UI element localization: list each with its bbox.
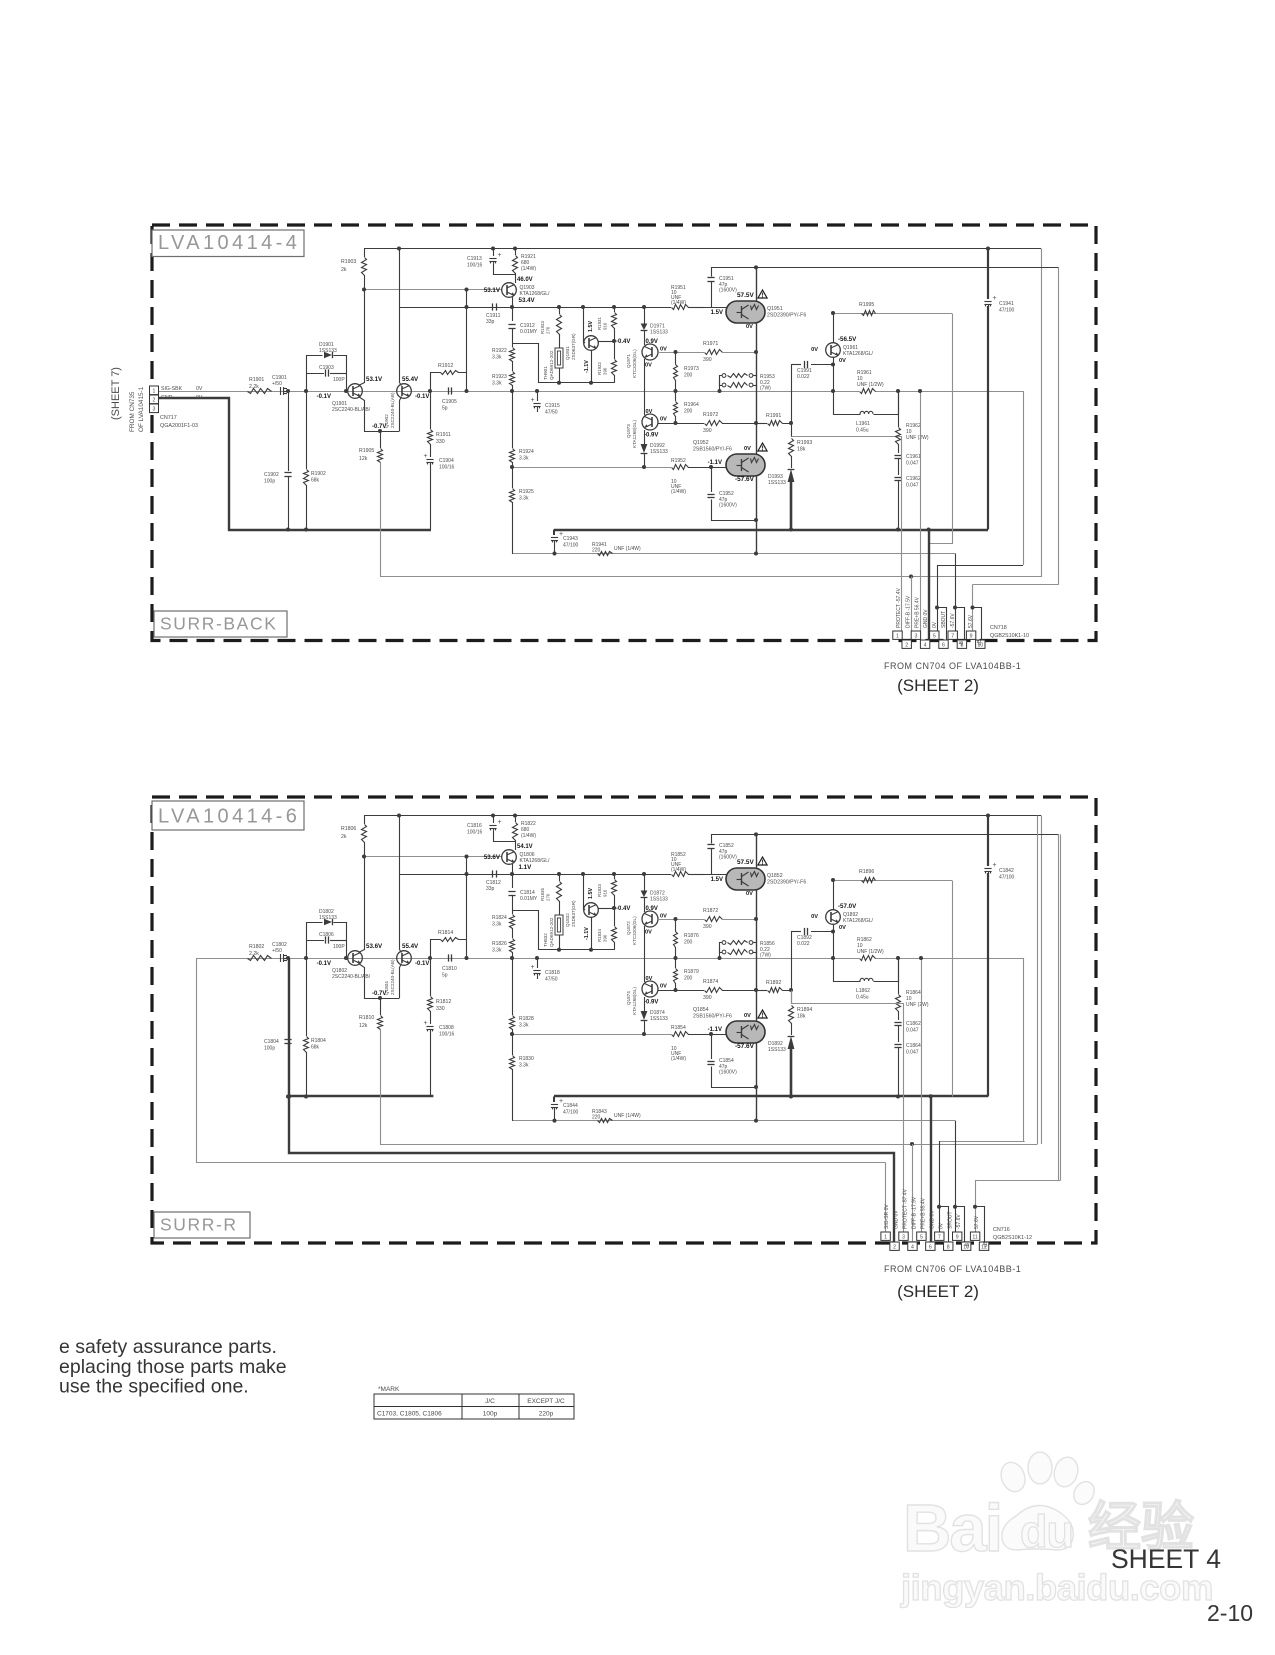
- svg-text:0V: 0V: [660, 984, 667, 990]
- title box LVA10414-6: [152, 801, 304, 830]
- wire Q1901 collector: [359, 290, 365, 386]
- svg-text:Q1952: Q1952: [693, 440, 709, 446]
- svg-text:L1961: L1961: [856, 421, 870, 427]
- svg-text:J/C: J/C: [485, 1398, 495, 1405]
- svg-text:QAD6912-202: QAD6912-202: [549, 917, 554, 947]
- svg-text:+B: +B: [977, 639, 983, 646]
- svg-text:330: 330: [436, 1006, 445, 1012]
- svg-text:KTC3206(GL): KTC3206(GL): [632, 349, 637, 378]
- svg-text:CN717: CN717: [160, 415, 177, 421]
- thermistor TH832: [559, 874, 561, 881]
- wire SBOUT vertical: [1023, 391, 1025, 565]
- svg-text:Q1902: Q1902: [384, 414, 389, 428]
- resistor R1810: [378, 996, 382, 1000]
- svg-text:-1.1V: -1.1V: [708, 460, 722, 466]
- svg-text:5: 5: [920, 1234, 923, 1240]
- svg-text:0.022: 0.022: [797, 374, 810, 380]
- svg-text:C1864: C1864: [906, 1043, 921, 1049]
- warning mark: [758, 1010, 767, 1018]
- wire thermistor bottom rail: [513, 911, 615, 950]
- svg-text:3.3k: 3.3k: [519, 456, 529, 462]
- svg-text:use the specified one.: use the specified one.: [59, 1376, 249, 1398]
- svg-text:R1971: R1971: [703, 341, 718, 347]
- svg-text:3.3k: 3.3k: [492, 948, 502, 954]
- svg-text:-57.6V: -57.6V: [956, 1214, 962, 1229]
- svg-text:+: +: [993, 295, 997, 302]
- capacitor C1842: [986, 814, 990, 818]
- resistor R1922: [512, 329, 514, 347]
- svg-text:3: 3: [902, 1234, 905, 1240]
- wire DIFF-B leg: [381, 1030, 1038, 1145]
- svg-text:0V: 0V: [196, 386, 203, 392]
- connector CN716 wiring pin8 jumper: [940, 1207, 949, 1243]
- svg-text:UNF (1/2W): UNF (1/2W): [857, 949, 884, 955]
- svg-text:R1812: R1812: [436, 999, 451, 1005]
- connector CN716 wiring pin3 PROTECT: [792, 991, 904, 1233]
- svg-text:R1912: R1912: [438, 363, 453, 369]
- svg-text:R1833: R1833: [597, 884, 602, 897]
- svg-text:SHEET 4: SHEET 4: [1111, 1544, 1221, 1574]
- svg-text:C1904: C1904: [439, 458, 454, 464]
- svg-text:220: 220: [592, 548, 601, 554]
- svg-text:KTA1268/GL/: KTA1268/GL/: [843, 351, 874, 357]
- svg-text:2SB1560/PY/-F6: 2SB1560/PY/-F6: [693, 447, 732, 453]
- wire Q1902 emitter: [400, 397, 402, 432]
- connector CN717: [150, 386, 159, 395]
- svg-text:6: 6: [929, 1244, 932, 1250]
- svg-text:1SS133: 1SS133: [319, 348, 337, 354]
- svg-text:11: 11: [972, 1234, 977, 1240]
- svg-text:1.5V: 1.5V: [588, 321, 594, 332]
- svg-text:2-10: 2-10: [1207, 1600, 1253, 1626]
- resistor R1864: [898, 958, 900, 994]
- svg-text:57.6V: 57.6V: [968, 614, 974, 628]
- svg-text:390: 390: [703, 924, 712, 930]
- svg-text:(7W): (7W): [760, 386, 771, 392]
- capacitor C1991: [791, 364, 801, 366]
- capacitor C1864: [898, 1026, 900, 1042]
- svg-text:0V: 0V: [939, 1222, 945, 1229]
- connector CN716 wiring pin5 PRE+B: [921, 959, 923, 1232]
- wire main signal line: [158, 391, 859, 393]
- svg-text:PROTECT -57.4V: PROTECT -57.4V: [896, 587, 902, 628]
- wire DIFF-B right vertical: [1037, 816, 1039, 1145]
- resistor R1973: [674, 350, 678, 354]
- svg-text:UNF (1/2W): UNF (1/2W): [857, 382, 884, 388]
- svg-text:33p: 33p: [486, 319, 495, 325]
- svg-text:1.5V: 1.5V: [711, 310, 723, 316]
- wire +B top rail: [364, 248, 1041, 250]
- svg-text:UNF (2W): UNF (2W): [906, 435, 929, 441]
- svg-text:55.4V: 55.4V: [402, 943, 419, 950]
- svg-text:-0.1V: -0.1V: [415, 961, 429, 967]
- resistor R1901: [248, 389, 272, 394]
- capacitor C1814: [508, 891, 515, 893]
- diode D1901: [307, 356, 323, 392]
- svg-text:270: 270: [546, 893, 551, 901]
- svg-text:SIG-SR 0V: SIG-SR 0V: [884, 1204, 890, 1229]
- svg-text:0.047: 0.047: [906, 483, 919, 489]
- svg-text:2: 2: [905, 642, 908, 648]
- svg-text:390: 390: [603, 367, 608, 375]
- transistor Q1973: [644, 359, 646, 415]
- svg-text:-56.5V: -56.5V: [838, 336, 857, 343]
- wire -B zobel line: [513, 553, 955, 555]
- connector CN716 wiring pin1 SIG-SR: [885, 1163, 887, 1233]
- resistor R1953 emitter 0.22 7W: [722, 374, 726, 378]
- capacitor C1901: [280, 387, 282, 395]
- svg-text:C1816: C1816: [467, 823, 482, 829]
- svg-text:-0.1V: -0.1V: [415, 394, 429, 400]
- capacitor C1903: [306, 373, 324, 375]
- svg-text:200: 200: [684, 409, 693, 415]
- wire CN717 pin1 to input: [159, 391, 247, 393]
- resistor R1993: [789, 439, 794, 457]
- svg-text:7: 7: [938, 1234, 941, 1240]
- warning mark: [758, 857, 767, 865]
- svg-text:47/100: 47/100: [563, 1110, 579, 1116]
- svg-text:3: 3: [153, 407, 156, 413]
- wire GND rail right: [554, 1095, 988, 1097]
- resistor R1933: [557, 315, 562, 335]
- svg-text:1.1V: 1.1V: [519, 864, 533, 871]
- transistor Q1802: [348, 951, 363, 966]
- svg-text:0V: 0V: [746, 891, 753, 897]
- svg-text:54.1V: 54.1V: [517, 844, 533, 850]
- capacitor C1806: [306, 940, 324, 942]
- svg-text:2SB1560/PY/-F6: 2SB1560/PY/-F6: [693, 1014, 732, 1020]
- capacitor C1952: [711, 467, 713, 492]
- svg-text:7: 7: [951, 633, 954, 639]
- svg-text:46.0V: 46.0V: [517, 277, 533, 283]
- svg-text:QGB2S10K1-10: QGB2S10K1-10: [990, 633, 1029, 639]
- svg-text:R1894: R1894: [797, 1007, 812, 1013]
- svg-text:12k: 12k: [359, 456, 368, 462]
- wire right vertical +B: [1058, 834, 1060, 1180]
- transistor Q1892: [826, 910, 841, 925]
- resistor R1924: [512, 391, 514, 448]
- svg-text:0.047: 0.047: [906, 1050, 919, 1056]
- svg-text:GND 0V: GND 0V: [930, 1210, 936, 1229]
- svg-text:0V: 0V: [932, 621, 938, 628]
- svg-text:18k: 18k: [797, 1014, 806, 1020]
- svg-text:910: 910: [603, 889, 608, 897]
- svg-text:-B: -B: [959, 640, 965, 646]
- svg-text:-0.4V: -0.4V: [616, 339, 630, 345]
- svg-text:100/16: 100/16: [439, 465, 455, 471]
- svg-text:C1804: C1804: [264, 1039, 279, 1045]
- wire protect line: [791, 436, 902, 438]
- resistor R1894: [789, 1006, 794, 1024]
- svg-text:+/50: +/50: [272, 381, 282, 387]
- svg-text:R1923: R1923: [492, 374, 507, 380]
- connector CN716 wiring pin11 +B: [976, 1181, 1061, 1233]
- wire GND rail left segment: [289, 1095, 433, 1097]
- svg-text:33p: 33p: [486, 886, 495, 892]
- svg-text:12k: 12k: [359, 1023, 368, 1029]
- resistor R1812: [428, 956, 432, 960]
- wire top-right vertical to DIFF-B: [1041, 816, 1043, 1145]
- svg-text:C1902: C1902: [264, 472, 279, 478]
- wire GND rail right: [554, 529, 988, 531]
- svg-text:(SHEET 2): (SHEET 2): [897, 676, 979, 695]
- svg-text:2k: 2k: [341, 834, 347, 840]
- svg-text:+: +: [993, 862, 997, 869]
- svg-text:Q1971: Q1971: [626, 354, 631, 368]
- svg-text:CN716: CN716: [993, 1227, 1010, 1233]
- connector CN718 wiring pin1 PROTECT: [901, 436, 903, 631]
- capacitor C1892: [791, 931, 801, 933]
- svg-text:2SD2390/PY/-F6: 2SD2390/PY/-F6: [767, 880, 806, 886]
- resistor R1952: [672, 465, 689, 470]
- svg-text:0.022: 0.022: [797, 941, 810, 947]
- svg-text:LVA10414-6: LVA10414-6: [158, 806, 300, 828]
- svg-text:100p: 100p: [483, 1411, 498, 1418]
- svg-text:0V: 0V: [811, 914, 818, 920]
- svg-text:0V: 0V: [645, 363, 652, 369]
- svg-text:Q1973: Q1973: [626, 424, 631, 438]
- node -0.4V: [612, 906, 616, 910]
- resistor R1892: [754, 988, 758, 992]
- diode D1971: [642, 305, 646, 309]
- svg-text:0V: 0V: [744, 446, 751, 452]
- connector CN716 wiring pin9 -B: [955, 1121, 957, 1232]
- svg-text:200: 200: [684, 940, 693, 946]
- wire Q1903 base vertical: [466, 290, 468, 373]
- resistor R1921: [513, 247, 517, 251]
- block border LVA10414-6: [152, 797, 1096, 1243]
- svg-text:3.3k: 3.3k: [519, 1023, 529, 1029]
- svg-text:(1600V): (1600V): [719, 503, 737, 509]
- svg-text:R1911: R1911: [436, 432, 451, 438]
- resistor R1833: [614, 874, 616, 879]
- svg-text:53.4V: 53.4V: [519, 297, 536, 304]
- svg-text:3.3k: 3.3k: [492, 355, 502, 361]
- transistor Q1874: [644, 926, 646, 982]
- connector CN718 wiring pin9 +B: [972, 585, 974, 632]
- watermark paw: [997, 1452, 1098, 1550]
- resistor R1836: [557, 882, 562, 902]
- svg-text:0V: 0V: [646, 976, 653, 982]
- svg-text:TH901: TH901: [543, 366, 548, 380]
- svg-text:R1854: R1854: [671, 1025, 686, 1031]
- svg-text:-0.1V: -0.1V: [317, 394, 331, 400]
- wire thermistor bottom rail: [513, 344, 615, 383]
- svg-text:R1933: R1933: [540, 321, 545, 334]
- diode D1892: [788, 1036, 795, 1049]
- svg-text:0.01MY: 0.01MY: [520, 896, 538, 902]
- svg-text:-B: -B: [965, 1242, 971, 1248]
- svg-text:R1872: R1872: [703, 908, 718, 914]
- svg-text:FROM CN706 OF LVA104BB-1: FROM CN706 OF LVA104BB-1: [884, 1264, 1021, 1274]
- svg-text:6: 6: [942, 642, 945, 648]
- wire Q1903 emitter column: [512, 864, 514, 888]
- svg-text:(1/4W): (1/4W): [671, 300, 686, 306]
- wire Q-base line: [364, 856, 502, 858]
- svg-text:0.9V: 0.9V: [646, 339, 658, 345]
- resistor R1834: [614, 908, 616, 926]
- wire output column: [756, 267, 758, 301]
- wire GND rail left: [289, 958, 894, 1242]
- svg-text:1: 1: [884, 1234, 887, 1240]
- capacitor C1804: [286, 956, 290, 960]
- svg-text:2SD637(GR): 2SD637(GR): [571, 900, 576, 927]
- svg-text:DIFF-B -17.5V: DIFF-B -17.5V: [906, 595, 912, 628]
- svg-text:R1922: R1922: [492, 348, 507, 354]
- transistor Q1832: [583, 874, 585, 908]
- svg-text:R1836: R1836: [540, 888, 545, 901]
- wire Q1973 emitter line: [658, 423, 704, 425]
- wire Q1902 collector: [400, 816, 402, 953]
- svg-text:R1924: R1924: [519, 449, 534, 455]
- thermistor TH901: [559, 307, 561, 314]
- title box SURR-R: [154, 1212, 250, 1238]
- svg-text:SIG-SBK: SIG-SBK: [161, 386, 183, 392]
- transistor Q1804: [397, 951, 412, 966]
- svg-text:C1903: C1903: [319, 365, 334, 371]
- svg-text:R1824: R1824: [492, 915, 507, 921]
- svg-text:R1834: R1834: [597, 929, 602, 942]
- warning mark: [758, 443, 767, 451]
- svg-text:2SC2240-BL(AB): 2SC2240-BL(AB): [390, 392, 395, 428]
- capacitor C1902: [286, 389, 290, 393]
- wire Q1971 emitter line: [658, 352, 704, 354]
- svg-text:R1964: R1964: [684, 402, 699, 408]
- wire output column: [756, 834, 758, 868]
- resistor R1951: [672, 305, 689, 310]
- svg-text:0V: 0V: [660, 347, 667, 353]
- watermark baidu jingyan: [903, 1491, 1001, 1566]
- svg-text:-57.6V: -57.6V: [735, 1043, 755, 1050]
- svg-text:3.3k: 3.3k: [519, 1063, 529, 1069]
- svg-text:3.3k: 3.3k: [492, 922, 502, 928]
- svg-text:C1818: C1818: [545, 970, 560, 976]
- svg-text:47/50: 47/50: [545, 410, 558, 416]
- svg-text:47/100: 47/100: [999, 308, 1015, 314]
- svg-text:C1941: C1941: [999, 301, 1014, 307]
- transistor Q1903: [502, 283, 517, 298]
- svg-text:+: +: [424, 1020, 428, 1027]
- capacitor C1808: [430, 1011, 432, 1024]
- svg-text:UNF (2W): UNF (2W): [906, 1002, 929, 1008]
- svg-text:68k: 68k: [311, 478, 320, 484]
- svg-text:2SD637(GR): 2SD637(GR): [571, 333, 576, 360]
- svg-text:390: 390: [703, 357, 712, 363]
- svg-text:-0.9V: -0.9V: [644, 433, 658, 439]
- svg-text:4: 4: [924, 642, 927, 648]
- connector CN718 wiring pin3 PRE+B: [920, 392, 922, 631]
- diode D1872: [642, 872, 646, 876]
- svg-text:200: 200: [684, 373, 693, 379]
- svg-text:2k: 2k: [341, 267, 347, 273]
- svg-text:100p: 100p: [264, 1046, 275, 1052]
- svg-text:(1/4W): (1/4W): [671, 489, 686, 495]
- connector CN718 wiring pin6 jumper: [938, 608, 947, 641]
- transistor Q1951: [704, 307, 726, 309]
- transistor Q1872: [644, 898, 646, 912]
- wire bias chain to -B line: [512, 502, 514, 554]
- wire feedback box right side: [929, 314, 953, 544]
- capacitor C1904: [430, 444, 432, 457]
- svg-text:-0.9V: -0.9V: [644, 1000, 658, 1006]
- capacitor C1812: [465, 872, 469, 876]
- capacitor C1951: [711, 268, 713, 277]
- svg-text:R1830: R1830: [519, 1056, 534, 1062]
- svg-text:47/100: 47/100: [999, 875, 1015, 881]
- svg-text:R1925: R1925: [519, 489, 534, 495]
- svg-text:FROM CN704 OF LVA104BB-1: FROM CN704 OF LVA104BB-1: [884, 661, 1021, 671]
- svg-text:*MARK: *MARK: [378, 1386, 400, 1393]
- resistor R1804: [306, 958, 308, 1036]
- watermark du and jingyan text: [900, 1498, 1213, 1608]
- svg-text:Q1874: Q1874: [626, 991, 631, 1005]
- wire +B collector rail: [711, 267, 1059, 269]
- svg-text:0.45u: 0.45u: [856, 995, 869, 1001]
- svg-text:C1905: C1905: [442, 399, 457, 405]
- svg-text:2: 2: [153, 398, 156, 404]
- capacitor C1943: [553, 530, 555, 536]
- wire Q-base line: [364, 289, 502, 291]
- capacitor C1810: [448, 954, 450, 961]
- svg-text:+: +: [531, 397, 535, 404]
- resistor R1879: [674, 956, 678, 960]
- resistor R1828: [512, 958, 514, 1015]
- svg-text:+: +: [531, 964, 535, 971]
- svg-text:UNF (1/4W): UNF (1/4W): [614, 1113, 641, 1119]
- wire +B top rail: [364, 815, 1041, 817]
- resistor R1862: [860, 956, 876, 961]
- wire Q1903 emitter column: [512, 297, 514, 321]
- svg-text:Q1931: Q1931: [565, 346, 570, 360]
- svg-text:SBOUT: SBOUT: [941, 611, 947, 628]
- svg-text:100/16: 100/16: [467, 830, 483, 836]
- svg-text:2SD2390/PY/-F6: 2SD2390/PY/-F6: [767, 313, 806, 319]
- svg-text:QGB2S10K1-12: QGB2S10K1-12: [993, 1235, 1032, 1241]
- svg-text:100/16: 100/16: [467, 263, 483, 269]
- resistor R1896: [862, 878, 876, 883]
- resistor R1905: [378, 429, 382, 433]
- svg-text:53.6V: 53.6V: [366, 943, 383, 950]
- svg-text:R1802: R1802: [249, 944, 264, 950]
- svg-text:R1876: R1876: [684, 933, 699, 939]
- resistor R1802: [248, 956, 272, 961]
- svg-text:57.5V: 57.5V: [737, 859, 754, 866]
- svg-text:+: +: [498, 252, 502, 259]
- transistor Q1854: [726, 1021, 765, 1043]
- wire feedback top: [835, 313, 952, 315]
- svg-text:+: +: [498, 819, 502, 826]
- svg-text:-1.1V: -1.1V: [584, 360, 590, 373]
- svg-text:68k: 68k: [311, 1045, 320, 1051]
- svg-text:18k: 18k: [797, 447, 806, 453]
- resistor R1941: [598, 552, 613, 556]
- svg-text:5p: 5p: [442, 973, 448, 979]
- transistor Q1852: [704, 874, 726, 876]
- title box SURR-BACK: [154, 611, 287, 637]
- svg-text:910: 910: [603, 322, 608, 330]
- capacitor C1912: [508, 324, 515, 326]
- svg-text:Q1804: Q1804: [384, 981, 389, 995]
- wire top-right vertical to DIFF-B: [1041, 249, 1043, 578]
- wire bias feed lower: [513, 467, 671, 469]
- svg-text:e safety assurance parts.: e safety assurance parts.: [59, 1336, 277, 1358]
- wire Q1901 emitter: [359, 397, 365, 432]
- svg-text:KTA1268(GL): KTA1268(GL): [632, 987, 637, 1015]
- svg-text:SURR-R: SURR-R: [160, 1215, 238, 1235]
- diode D1993: [788, 469, 795, 482]
- svg-text:C1961: C1961: [906, 454, 921, 460]
- svg-text:KTC3206(GL): KTC3206(GL): [632, 916, 637, 945]
